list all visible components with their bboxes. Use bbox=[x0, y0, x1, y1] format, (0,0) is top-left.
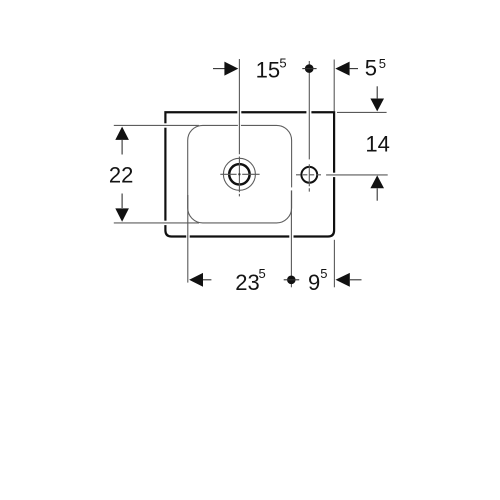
tap hole circle bbox=[301, 167, 317, 183]
right dim 14: top extension line bbox=[337, 111, 387, 113]
left dim: down arrow bbox=[121, 194, 123, 209]
left dim: bottom extension line bbox=[114, 222, 199, 224]
right dim: bottom extension line bbox=[326, 174, 388, 176]
svg-text:5: 5 bbox=[365, 56, 377, 81]
svg-text:5: 5 bbox=[259, 266, 266, 281]
right dim: up arrow bbox=[370, 175, 384, 188]
bottom dim: right extension line (below right edge) bbox=[333, 240, 335, 287]
svg-text:22: 22 bbox=[109, 162, 133, 187]
extension line right edge up bbox=[333, 60, 335, 112]
bottom dim dot bbox=[287, 276, 296, 285]
bottom dim: left arrow bbox=[189, 273, 203, 287]
left dim 22: top extension line bbox=[114, 124, 199, 126]
svg-text:15: 15 bbox=[256, 57, 280, 82]
top dim: arrow left at right edge line bbox=[335, 62, 349, 76]
svg-text:5: 5 bbox=[279, 56, 286, 71]
washbasin outer outline bbox=[165, 112, 334, 236]
svg-text:9: 9 bbox=[308, 270, 320, 295]
bottom dim: extension line from rim right edge down bbox=[290, 191, 292, 288]
right dim: down arrow bbox=[376, 86, 378, 98]
tap crosshair vertical + extension to top dot bbox=[308, 61, 310, 192]
top dim: arrow right toward drain line bbox=[213, 68, 225, 70]
drain crosshair horizontal bbox=[220, 173, 259, 175]
gaps in object lines at extension-line crossings bbox=[237, 111, 241, 115]
tap crosshair horizontal dashed bbox=[296, 174, 323, 176]
drain hole thin circle bbox=[223, 158, 255, 190]
svg-text:5: 5 bbox=[320, 266, 327, 281]
left dim: up arrow bbox=[115, 127, 129, 140]
drain center dot bbox=[238, 173, 240, 175]
svg-text:14: 14 bbox=[365, 132, 389, 157]
bottom dim: right arrow bbox=[336, 273, 350, 287]
svg-text:23: 23 bbox=[235, 270, 259, 295]
basin inner rim bbox=[188, 125, 292, 222]
drain crosshair vertical + extension to top dim bbox=[238, 59, 240, 196]
drain hole thick circle bbox=[229, 164, 249, 184]
top dim dot at tap line bbox=[305, 64, 314, 73]
svg-text:5: 5 bbox=[379, 56, 386, 71]
bottom dim: left extension line (from rim left edge) bbox=[187, 195, 189, 283]
